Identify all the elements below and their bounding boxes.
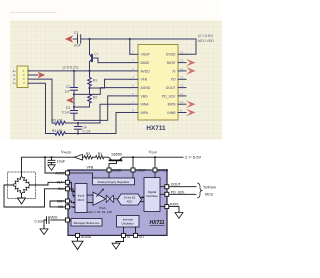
svg-text:INNA: INNA: [141, 103, 150, 107]
svg-text:VSUP: VSUP: [141, 53, 151, 57]
svg-text:S+: S+: [13, 81, 17, 85]
AGND net arrow: [66, 97, 74, 104]
svg-text:DOUT: DOUT: [171, 183, 181, 187]
wires MUX to PGA: [87, 195, 93, 203]
svg-text:XO: XO: [171, 78, 176, 82]
svg-text:0.1uF: 0.1uF: [35, 220, 44, 224]
capacitor C3: [71, 111, 78, 114]
svg-text:14: 14: [180, 67, 184, 71]
svg-text:10uF: 10uF: [73, 44, 81, 48]
wire Q1 collector down to AVDD rail: [89, 62, 91, 71]
PGA gain arrow: [97, 190, 104, 197]
wire top VSUP rail: [83, 38, 197, 40]
HX711 block body: [68, 170, 167, 235]
svg-text:DVDD: DVDD: [158, 169, 168, 173]
capacitor 10uF: [51, 157, 53, 160]
wires oscillator to XI XO: [124, 227, 136, 233]
resistor R1: [88, 71, 92, 88]
svg-text:AGND: AGND: [141, 86, 151, 90]
svg-text:E+: E+: [13, 69, 17, 73]
wire Q1 base to BASE pin: [92, 58, 130, 63]
svg-text:VSUP: VSUP: [136, 169, 146, 173]
wire AVDD rail left part: [45, 156, 84, 158]
IC U1 left pin stubs: [130, 54, 138, 112]
svg-text:INPA: INPA: [141, 111, 149, 115]
wire connector pin4 to R4: [28, 83, 46, 133]
connector pin1 stub: [28, 70, 30, 72]
svg-text:C3: C3: [66, 106, 70, 110]
PGA triangle: [93, 192, 106, 205]
svg-text:R2: R2: [93, 96, 97, 100]
svg-text:XO: XO: [139, 235, 144, 239]
svg-text:DOUT: DOUT: [166, 86, 176, 90]
wire DVDD corner to pin 16: [186, 39, 196, 54]
faint artifact line top: [10, 12, 57, 14]
svg-text:Bandgap Reference: Bandgap Reference: [74, 221, 100, 225]
IC U1 pin names right column: [162, 53, 176, 115]
svg-text:10uF: 10uF: [57, 159, 66, 163]
svg-text:10: 10: [180, 100, 184, 104]
pin square VSUP: [131, 168, 135, 172]
svg-text:E-: E-: [13, 73, 16, 77]
resistor R2: [88, 88, 92, 103]
wire AVDD tap to AVDD pin: [45, 157, 65, 173]
bottom pin squares AGND XI XO: [76, 233, 80, 237]
net arrow INPB pin10: [186, 100, 196, 108]
IC U1 left pin numbers: [132, 50, 134, 112]
bridge ground: [21, 194, 23, 199]
svg-text:MCU VDD: MCU VDD: [198, 39, 214, 43]
IC U1 pin names left column: [141, 53, 151, 115]
svg-text:BASE: BASE: [112, 169, 122, 173]
svg-text:MCU: MCU: [205, 192, 214, 196]
svg-text:11: 11: [180, 92, 183, 96]
wire bowtie to ADC: [114, 198, 118, 200]
net arrow RATE pin15: [186, 59, 196, 67]
svg-text:BASE: BASE: [141, 61, 151, 65]
resistor R2: [84, 156, 93, 159]
svg-text:Interface: Interface: [146, 194, 158, 198]
wire INA+ from bridge: [30, 182, 65, 185]
inner box Analog Supply Regulator: [93, 178, 135, 185]
power input arrow (left, VSUP net): [65, 35, 73, 42]
wires pins to MUX: [69, 182, 73, 207]
svg-text:1uF: 1uF: [65, 90, 71, 94]
svg-text:PD_SCK: PD_SCK: [162, 94, 176, 98]
capacitor 0.1uF on VBG: [51, 219, 66, 221]
resistor R3: [52, 121, 68, 125]
wire INB+ INB- link: [50, 201, 65, 207]
wire VFB net to pin 4: [90, 79, 131, 88]
load cell bridge: [12, 176, 31, 195]
capacitor C1: [73, 35, 83, 43]
svg-text:16: 16: [180, 50, 184, 54]
wire regulator to VSUP: [132, 172, 134, 178]
wire AVDD rail: [28, 70, 130, 72]
svg-text:DVDD: DVDD: [166, 53, 176, 57]
svg-text:MUX: MUX: [78, 198, 85, 202]
net arrow INNB pin9: [186, 109, 196, 117]
svg-text:PD_SCK: PD_SCK: [171, 190, 185, 194]
IC U1 right pin stubs: [178, 54, 186, 112]
transistor Q1: [88, 38, 90, 40]
wire AVDD into regulator: [69, 173, 92, 178]
svg-text:Oscillator: Oscillator: [121, 222, 134, 226]
wire regulator to BASE: [108, 172, 110, 178]
svg-text:Gain = 32, 64, 128: Gain = 32, 64, 128: [87, 210, 112, 214]
wire base stub: [109, 161, 117, 168]
svg-text:VFB: VFB: [87, 165, 94, 169]
load cell dashed box: [8, 172, 36, 199]
svg-text:R1: R1: [98, 152, 102, 156]
svg-text:Analog Supply Regulator: Analog Supply Regulator: [98, 180, 130, 184]
page background: [0, 0, 222, 278]
svg-text:S-: S-: [13, 77, 16, 81]
svg-text:2.7~5.5V: 2.7~5.5V: [185, 154, 201, 159]
right pin squares DOUT PD_SCK RATE: [165, 185, 169, 189]
svg-text:R4 100: R4 100: [52, 129, 63, 133]
svg-text:AVDD: AVDD: [55, 171, 65, 175]
inner box Internal Oscillator: [117, 216, 140, 228]
svg-text:0.1uF: 0.1uF: [62, 110, 70, 114]
IC U1 right pin numbers: [180, 50, 184, 112]
svg-text:R1: R1: [93, 79, 97, 83]
connector left labels: [13, 69, 17, 85]
IC U1 HX711: [138, 45, 178, 121]
svg-text:INNB: INNB: [167, 111, 176, 115]
wires DI to right pins: [160, 187, 165, 207]
wire DVDD drop: [154, 157, 156, 168]
svg-text:To/From: To/From: [203, 186, 216, 190]
pin square BASE: [107, 168, 111, 172]
connector J1: [17, 66, 28, 88]
wire VBG to bandgap: [69, 219, 71, 221]
schematic beige sheet: [10, 21, 222, 140]
wire bridge top to AVDD rail: [22, 157, 46, 176]
net arrow XI pin14: [186, 67, 196, 75]
capacitor C2: [73, 71, 75, 87]
svg-text:VSUP: VSUP: [149, 149, 158, 155]
svg-text:XI: XI: [172, 69, 175, 73]
svg-text:(2.7-5.5V): (2.7-5.5V): [198, 34, 213, 38]
svg-text:RATE: RATE: [167, 61, 177, 65]
RATE ground: [175, 213, 183, 219]
svg-text:INPB: INPB: [168, 103, 177, 107]
left pin labels: [50, 171, 65, 219]
node AGND junction: [73, 93, 75, 95]
resistor R4: [46, 132, 69, 136]
svg-text:AVDD: AVDD: [141, 69, 151, 73]
svg-text:ADC: ADC: [126, 200, 132, 204]
svg-text:RATE: RATE: [170, 203, 180, 207]
svg-text:Q1: Q1: [94, 52, 98, 56]
inner box Bandgap Reference: [71, 219, 102, 227]
wire VBG net to pin 6: [74, 96, 130, 121]
node VFB junction: [88, 87, 90, 89]
svg-text:AGND: AGND: [81, 235, 92, 239]
svg-text:VFB: VFB: [141, 78, 148, 82]
brace to MCU: [198, 183, 202, 198]
ADC hexagon: [118, 194, 142, 205]
svg-text:VAVDD: VAVDD: [61, 149, 71, 155]
svg-text:HX711: HX711: [146, 125, 166, 132]
svg-text:HX711: HX711: [150, 220, 165, 226]
wire RATE out: [169, 207, 179, 213]
wire INNA net to pin 7: [67, 104, 130, 123]
VFB open arrow: [75, 154, 83, 160]
svg-text:12: 12: [180, 84, 184, 88]
multiplier bowtie: [106, 195, 113, 202]
pin square DVDD: [153, 168, 157, 172]
svg-text:R3 100: R3 100: [52, 118, 63, 122]
inner box Input MUX: [75, 184, 87, 213]
resistor R1: [93, 156, 105, 159]
wires ADC to Digital Interface: [140, 197, 144, 201]
svg-text:C1: C1: [74, 31, 78, 35]
left pin squares: [65, 171, 69, 175]
wire connector pin3 to R3: [28, 79, 52, 123]
wire DVDD to Digital Interface: [154, 172, 156, 178]
connector pin2 net arrow: [28, 74, 38, 76]
wire AGND column: [73, 94, 75, 110]
svg-text:S8550: S8550: [111, 153, 121, 157]
svg-text:VBG: VBG: [141, 94, 149, 98]
svg-text:R2: R2: [86, 152, 90, 156]
svg-text:13: 13: [180, 75, 184, 79]
wire VSUP drop to pin 1: [129, 39, 131, 54]
wire INPA net to pin 8: [67, 113, 130, 134]
XI ground: [116, 237, 124, 243]
wire VSUP drop: [132, 157, 134, 168]
svg-text:VBG: VBG: [50, 215, 58, 219]
svg-text:(2.6-5.2V): (2.6-5.2V): [63, 66, 79, 70]
AGND ground: [77, 237, 79, 241]
svg-text:XI: XI: [127, 235, 130, 239]
svg-text:15: 15: [180, 59, 184, 63]
svg-text:C2: C2: [66, 85, 70, 89]
wire R2 bottom link: [74, 103, 90, 107]
inner box Digital Interface: [144, 178, 160, 212]
wires DOUT PD_SCK out: [169, 187, 196, 195]
capacitor C4: [77, 123, 79, 126]
wire INA- from bridge around bottom: [4, 185, 65, 207]
wire AGND net to pin 5: [74, 88, 130, 95]
